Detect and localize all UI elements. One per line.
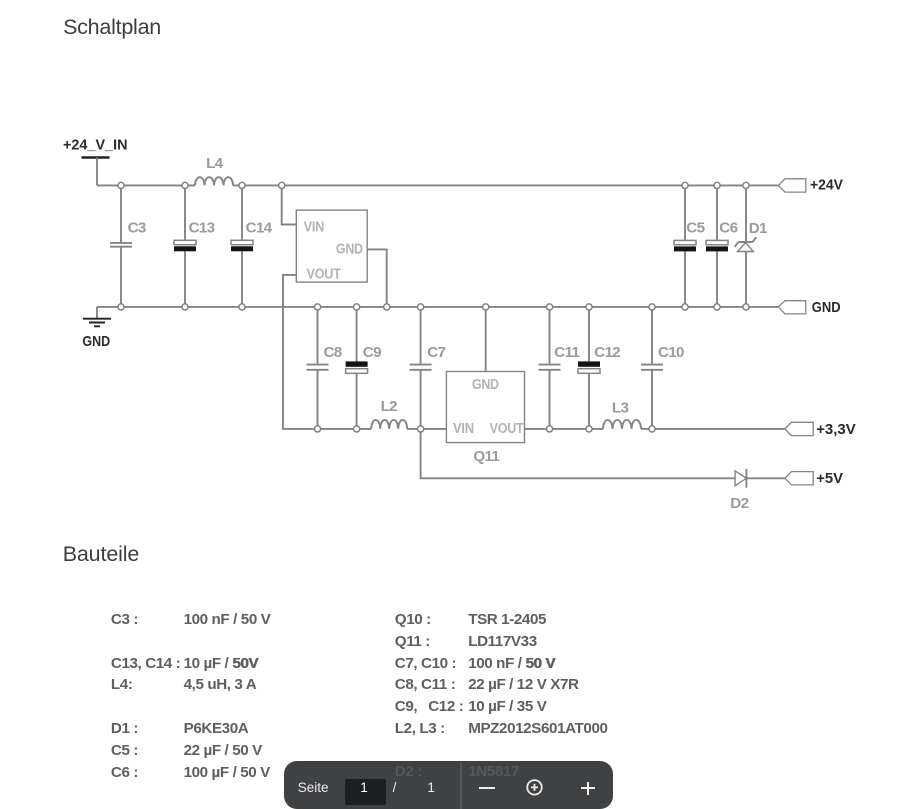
toolbar separator	[460, 763, 462, 809]
op-amp U Q10 box	[296, 210, 367, 282]
capacitor C3	[110, 185, 146, 307]
junction nodes 5V rail	[314, 426, 423, 432]
inductor L3	[603, 400, 641, 429]
wire +24V rail	[97, 184, 778, 186]
regulator Q11 box	[446, 372, 524, 466]
toolbar minus button	[479, 787, 495, 790]
toolbar page input box	[345, 779, 387, 805]
toolbar zoom reset button	[526, 779, 544, 809]
node +24_V_IN label	[63, 136, 128, 153]
inductor L2	[371, 398, 407, 429]
title Schaltplan	[63, 15, 161, 40]
toolbar page number	[360, 780, 368, 795]
toolbar plus button	[581, 787, 596, 790]
junction nodes 3,3V rail	[546, 426, 655, 432]
wire input drop	[96, 158, 98, 186]
capacitor C5	[674, 185, 706, 307]
inductor L4	[195, 155, 233, 185]
wire Q10 VOUT to 5V rail	[283, 275, 446, 429]
wire GND rail	[97, 306, 778, 308]
parts D2 row under toolbar	[395, 763, 422, 780]
terminal tag +24V	[778, 177, 843, 194]
capacitor C14	[231, 185, 273, 307]
capacitor C8	[307, 307, 342, 429]
terminal bar +24_V_IN	[82, 156, 110, 159]
wire +5V branch	[421, 429, 785, 478]
pdf viewer toolbar	[284, 761, 613, 809]
toolbar page count slash	[393, 780, 397, 795]
capacitor C6	[706, 185, 738, 307]
ground symbol GND	[82, 307, 111, 350]
diode D2	[730, 469, 748, 512]
terminal tag +3,3V	[785, 421, 856, 438]
capacitor C10	[641, 307, 684, 429]
wire Q11 GND	[485, 307, 487, 372]
capacitor C7	[410, 307, 446, 429]
junction nodes GND rail	[118, 304, 749, 310]
capacitor C13	[174, 185, 215, 307]
capacitor C11	[539, 307, 581, 429]
terminal tag +5V	[785, 470, 843, 487]
title Bauteile	[63, 542, 140, 567]
junction nodes 24V rail	[118, 182, 749, 188]
capacitor C9	[346, 307, 381, 429]
wire Q10 VIN	[282, 185, 297, 224]
diode D1 zener	[735, 185, 768, 307]
wire Q10 GND	[367, 249, 387, 307]
wire +3,3V rail	[525, 428, 785, 430]
terminal tag GND	[778, 299, 840, 316]
toolbar page label Seite	[298, 780, 329, 795]
capacitor C12	[578, 307, 620, 429]
